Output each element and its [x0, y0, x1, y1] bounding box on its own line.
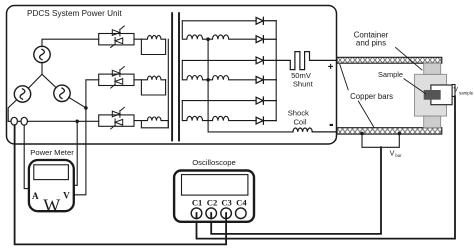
transformer T1 core [172, 13, 179, 140]
svg-text:Coil: Coil [293, 117, 306, 126]
thyristor module Q1 row 1 [99, 26, 134, 48]
wire upper line row 1 to diode [182, 20, 256, 22]
wire pointer copper bars top [340, 65, 348, 90]
wire primary loop row 3 [141, 121, 168, 128]
svg-text:Shunt: Shunt [293, 80, 314, 89]
label minus terminal [330, 124, 333, 126]
svg-text:+: + [328, 62, 334, 73]
node center tap row 1 [206, 37, 210, 41]
wire center tap return [208, 39, 293, 132]
wire stubs at oscilloscope inputs C1 C2 [197, 213, 212, 219]
label Container and pins [354, 30, 389, 47]
wire primary connector vertical [167, 39, 169, 128]
svg-text:C1: C1 [192, 197, 203, 207]
ac source G3 (right phase) [54, 85, 70, 101]
terminal J2 [21, 117, 27, 125]
sample holder box [431, 85, 452, 105]
inductor L2 primary row 2 [134, 76, 166, 80]
wire phase B from G2 down to bus [8, 100, 17, 122]
svg-text:sample: sample [459, 90, 474, 95]
svg-text:Power Meter: Power Meter [30, 148, 74, 157]
label Shock Coil [288, 109, 309, 127]
node V bar left [360, 132, 364, 136]
thyristor module Q2 row 2 [99, 67, 134, 89]
wire voltage tap 2 to power meter V [74, 108, 86, 195]
wire V bar bracket [362, 134, 399, 147]
label Power Meter [30, 148, 74, 157]
thyristor module Q3 row 3 [99, 107, 134, 128]
node junction on bus [75, 120, 79, 124]
winding W3 secondary row 3 [182, 101, 256, 121]
label Copper bars [350, 92, 393, 101]
svg-text:C3: C3 [221, 197, 232, 207]
wire terminal J2 to power meter A [24, 125, 29, 189]
node junction phase C [84, 106, 88, 110]
wire oscilloscope C3 to terminal J1 [15, 125, 227, 244]
wire pointer container label [396, 48, 422, 71]
svg-text:and pins: and pins [356, 39, 386, 48]
svg-text:Sample: Sample [378, 70, 403, 79]
label V sample [454, 87, 474, 96]
label Sample [378, 70, 403, 79]
node center tap row 2 [206, 78, 210, 82]
container pin bottom [424, 116, 441, 128]
diode D4 [256, 76, 276, 83]
svg-text:Shock: Shock [288, 109, 309, 118]
power meter M1 [29, 160, 74, 215]
wire V sample bracket [452, 85, 455, 97]
label plus terminal [328, 62, 334, 73]
winding W2 secondary row 2 [182, 60, 256, 79]
wire star connection of sources [28, 62, 56, 88]
wire primary loop row 1 [141, 39, 165, 54]
container pin top [424, 63, 441, 74]
resistor R-shunt 50mV [276, 52, 337, 70]
svg-text:C2: C2 [207, 197, 218, 207]
inductor L1 primary row 1 [134, 35, 166, 39]
wire phase C from G3 to junction [69, 97, 86, 108]
wire primary loop row 2 [141, 80, 165, 95]
svg-text:V: V [63, 191, 70, 201]
label 50mV Shunt [291, 71, 314, 89]
diode D6 [256, 117, 276, 124]
oscilloscope O1 [174, 171, 254, 222]
container body [415, 74, 447, 116]
power unit enclosure U-PDCS [7, 6, 337, 145]
ac source G1 (top phase) [34, 46, 50, 62]
terminal J1 [11, 117, 17, 125]
wire phase A from G1 to SCR box row 1 [42, 39, 99, 46]
title label PDCS System Power Unit [27, 9, 122, 18]
label V bar [390, 148, 402, 158]
copper bar top [337, 57, 442, 63]
label Oscilloscope [192, 158, 236, 167]
diode D3 [256, 57, 276, 64]
wire voltage tap 1 to power meter V [74, 121, 77, 185]
inductor L3 primary row 3 [134, 117, 168, 121]
ac source G2 (left phase) [14, 86, 30, 102]
svg-text:V: V [390, 148, 395, 157]
svg-text:C4: C4 [236, 197, 247, 207]
diode D1 [256, 17, 276, 24]
wire dc positive bus [275, 21, 277, 121]
diode D2 [256, 36, 276, 43]
wire bus to SCR box row 3 [8, 120, 99, 122]
svg-text:W: W [43, 195, 60, 215]
wire pointer copper bars bottom [358, 101, 374, 127]
wire junction up to SCR box row 2 [86, 80, 99, 108]
diode D5 [256, 97, 276, 104]
svg-text:Copper bars: Copper bars [350, 92, 393, 101]
svg-text:A: A [32, 191, 39, 201]
wire upper line row 3 to diode [182, 100, 256, 102]
svg-text:Oscilloscope: Oscilloscope [192, 158, 236, 167]
wire upper line row 2 to diode [182, 59, 256, 61]
sample S1 [424, 90, 441, 100]
svg-text:PDCS System Power Unit: PDCS System Power Unit [27, 9, 122, 18]
svg-text:bar: bar [395, 153, 402, 158]
wire pointer sample label [404, 79, 426, 94]
inductor L-shock coil [293, 128, 337, 132]
wire V bar to oscilloscope C2 [211, 147, 381, 234]
svg-text:V: V [454, 87, 459, 94]
node V bar right [398, 132, 402, 136]
wire V sample to oscilloscope C1 [197, 96, 456, 238]
winding W1 secondary row 1 [182, 21, 256, 39]
copper bar bottom [337, 128, 442, 134]
